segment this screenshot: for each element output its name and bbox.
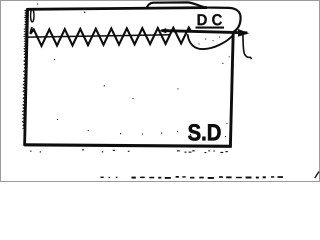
bottom right end tick [315, 172, 319, 179]
small J hook right of box [243, 34, 252, 59]
residue dots under bottom edge [30, 151, 31, 152]
noise specks [84, 12, 85, 13]
DC tab outline [147, 2, 241, 31]
curved hook under DC [188, 34, 234, 49]
box bottom edge [24, 145, 232, 147]
DC arrow shaft [162, 31, 248, 33]
bottom dashed line [101, 177, 104, 178]
label D C [198, 14, 207, 25]
DC arrow right head [238, 29, 249, 37]
box right edge [230, 33, 233, 147]
box left edge [25, 8, 28, 146]
label S.D [188, 124, 200, 140]
outer gray frame [1, 1, 320, 182]
spring zigzag [30, 27, 191, 46]
spring midline wire [28, 35, 170, 37]
box left edge fringe [22, 10, 27, 129]
DC arrow left head [159, 28, 166, 33]
box top edge [28, 8, 207, 10]
spring end loop [31, 9, 34, 22]
spring zigzag vertex knots [33, 29, 35, 31]
label D C underline [196, 27, 225, 29]
